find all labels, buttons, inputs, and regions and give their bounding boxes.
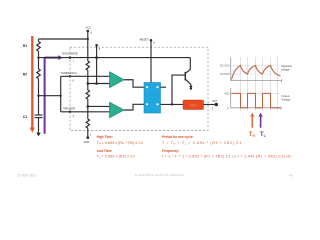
svg-text:Period for one cycle:: Period for one cycle: (162, 135, 194, 139)
GND pin 1 terminal dot (86, 136, 89, 139)
capacitor C1 (35, 114, 43, 116)
wire FF Q stub (161, 86, 167, 88)
svg-text:R1: R1 (23, 44, 27, 48)
capacitor voltage waveform (232, 66, 281, 80)
svg-text:R2: R2 (23, 73, 27, 77)
RESET pin 4 terminal dot (150, 39, 153, 42)
svg-text:VCC: VCC (86, 26, 92, 30)
junction control/discharge crossing dot (95, 56, 98, 59)
ground under C1 (36, 133, 41, 137)
svg-text:output: output (190, 103, 197, 107)
output voltage square waveform (231, 93, 280, 107)
OUT pin 3 terminal dot (215, 103, 218, 106)
svg-text:C1: C1 (23, 115, 27, 119)
node A junction (R1/R2/discharge) (37, 56, 39, 58)
wire R1 top lead (38, 39, 40, 42)
wire R1 bottom to node A (38, 51, 40, 69)
discharge current path (purple, C1 up through R2 into pin 7) (45, 55, 63, 134)
junction 2/3 node / control (95, 82, 98, 85)
divider resistor 5k (middle) (86, 90, 89, 99)
FF pin mark Q (156, 86, 158, 88)
comparator 1 (threshold) (110, 72, 125, 88)
wire base branch riser (172, 75, 185, 104)
svg-text:High Time:: High Time: (97, 135, 113, 139)
wire C1 bottom lead (38, 118, 40, 133)
wire threshold net to comparator 1 (61, 75, 111, 77)
svg-text:RESET: RESET (140, 38, 149, 42)
wire top rail R1 to VCC stem (39, 38, 89, 40)
svg-text:48: 48 (289, 173, 293, 177)
svg-text:GND: GND (84, 140, 90, 144)
wire comparator 1 output to FF R input (124, 80, 144, 87)
wire 2/3 node to comparator 1 inverting input (88, 83, 111, 85)
control pin terminal dot (95, 44, 98, 47)
FF pin mark Qb (156, 103, 158, 105)
junction rail/riser (60, 95, 62, 97)
svg-text:Voltage: Voltage (282, 97, 291, 101)
output stage block (183, 100, 204, 110)
wire 1/3 node to comparator 2 non-inverting input (88, 105, 111, 107)
divider resistor 5k (top) (86, 61, 89, 70)
svg-text:Low Time:: Low Time: (97, 149, 113, 153)
VCC pin 8 terminal dot (87, 30, 90, 33)
control pin 5 stub (96, 45, 98, 83)
Vcc dashed level (231, 92, 280, 94)
svg-text:1/3 VCC: 1/3 VCC (220, 73, 230, 76)
output plot axis end tick (280, 106, 282, 109)
resistor R2 (37, 69, 41, 79)
capacitor voltage plot axes (231, 58, 282, 81)
pin 6 terminal dot (69, 75, 72, 78)
svg-text:f = 1 / T = 1 / 0.693 * (R1 +: f = 1 / T = 1 / 0.693 * (R1 + 2R2) C1 or… (162, 155, 291, 159)
transistor Q1 (discharge) (184, 72, 186, 81)
charging current path (orange arrow down, VCC through R1,R2 to C1) (30, 36, 35, 133)
wire divider to GND pin (87, 128, 89, 138)
waveform time gridlines (241, 57, 278, 111)
junction 2/3 Vcc node (87, 82, 90, 85)
wire output stage to OUT pin (204, 104, 217, 106)
junction VCC stem / top rail (87, 38, 89, 40)
svg-text:TRIGGER: TRIGGER (63, 106, 75, 110)
annotation arrow T_L (purple up) (258, 113, 262, 128)
svg-text:2/3 VCC: 2/3 VCC (220, 65, 230, 68)
FF pin mark S (146, 103, 148, 105)
junction 1/3 Vcc node (87, 105, 90, 108)
pin 7 terminal dot (69, 56, 72, 59)
wire RESET stem to FF (150, 40, 152, 82)
1/3 Vcc dashed level (231, 73, 279, 75)
wire split riser (60, 76, 62, 112)
svg-text:Output: Output (282, 94, 290, 98)
svg-text:VCC: VCC (224, 93, 229, 96)
wire divider upper node (87, 70, 89, 90)
wire node B rail to threshold/trigger split (39, 95, 61, 97)
transistor emitter with arrow (186, 79, 191, 86)
resistor R1 (37, 42, 41, 52)
output voltage plot axes (231, 88, 282, 108)
annotation arrow T_H (orange up) (250, 113, 254, 128)
svg-text:voltage: voltage (281, 67, 290, 71)
wire R2 bottom to node B (38, 79, 40, 115)
flip-flop U1 (RS latch) (144, 83, 161, 114)
emitter terminal dot (190, 87, 192, 89)
wire VCC stem and divider spine (87, 31, 89, 61)
555 IC internal boundary (dashed box) (70, 47, 208, 130)
node B junction (R2/C1/thr-trig rail) (37, 95, 39, 97)
transistor collector (186, 58, 191, 74)
svg-text:27 April 2021: 27 April 2021 (17, 174, 36, 178)
svg-text:OUT: OUT (212, 100, 218, 103)
svg-text:Frequency:: Frequency: (162, 149, 179, 153)
wire comparator 2 output to FF S input (124, 104, 144, 110)
svg-text:Capacitor: Capacitor (281, 64, 292, 68)
wire discharge net (node A to transistor collector riser) (39, 57, 191, 59)
svg-text:E-ZUHAIRA NASTITI FRANCE: E-ZUHAIRA NASTITI FRANCE (135, 173, 184, 177)
pin 2 terminal dot (69, 111, 72, 114)
junction output net / base branch (171, 103, 173, 105)
wire FF output net to output stage (161, 103, 184, 105)
wire trigger net to comparator 2 (61, 111, 111, 113)
wire divider lower node (87, 99, 89, 119)
cap plot axis end tick (280, 79, 282, 82)
FF pin mark R (146, 86, 148, 88)
divider resistor 5k (bottom) (86, 119, 89, 128)
svg-text:THRESHOLD: THRESHOLD (61, 71, 77, 75)
2/3 Vcc dashed level (231, 65, 279, 67)
comparator 2 (trigger) (110, 102, 125, 118)
